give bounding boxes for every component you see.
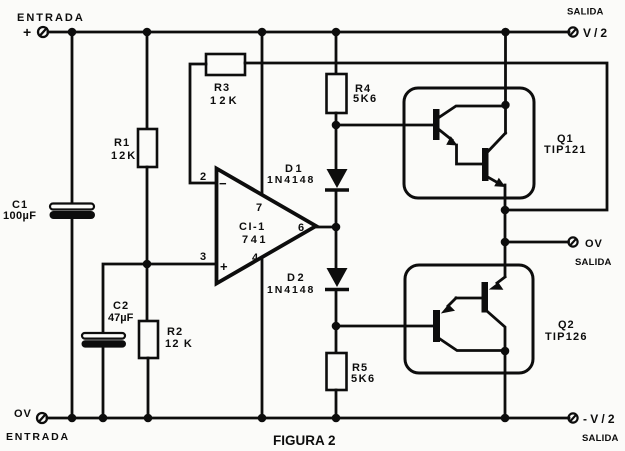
svg-text:ENTRADA: ENTRADA [17, 12, 85, 24]
svg-text:FIGURA 2: FIGURA 2 [273, 433, 336, 448]
svg-text:TIP126: TIP126 [545, 331, 588, 343]
node feedback output junction [501, 206, 510, 215]
node bottom rail at pin4 column [258, 414, 267, 423]
node bottom rail at R2 column [144, 414, 153, 423]
wire Q1 emitter down to output node [504, 185, 507, 242]
svg-text:TIP121: TIP121 [544, 144, 587, 156]
wire Q1a collector [440, 106, 506, 117]
svg-text:47µF: 47µF [108, 312, 134, 324]
node top rail at R1 column [143, 28, 152, 37]
svg-text:Q2: Q2 [558, 319, 575, 331]
wire Q2a emitter with arrow [441, 298, 456, 314]
wire C1 column upper [71, 32, 74, 205]
svg-text:+: + [220, 259, 228, 274]
svg-text:-V/2: -V/2 [583, 412, 618, 426]
wire R2 column upper [146, 264, 149, 321]
wire top rail +V [48, 31, 569, 34]
wire Q2 base line [336, 325, 433, 328]
svg-text:3: 3 [200, 251, 206, 263]
wire op-amp output pin 6 [316, 226, 336, 229]
wire Q1b emitter with arrow [489, 178, 506, 188]
resistor R5 [327, 353, 347, 390]
svg-text:−: − [219, 176, 227, 191]
wire D1 to D2 [335, 191, 338, 268]
svg-text:R3: R3 [214, 82, 230, 94]
svg-text:SALIDA: SALIDA [575, 257, 612, 268]
wire R5 to bottom rail [335, 390, 338, 418]
capacitor C2 [82, 333, 127, 348]
transistor Q1 darlington box [404, 88, 534, 198]
node top rail at Q1 column [501, 28, 510, 37]
terminal OV input [37, 413, 47, 423]
node top rail at pin7 column [258, 28, 267, 37]
node Q1 collector junction [501, 101, 509, 109]
wire Q1a emitter to Q1b base [457, 145, 483, 164]
node OV output junction [501, 238, 510, 247]
svg-text:R1: R1 [114, 137, 130, 149]
wire Q2a collector [440, 339, 505, 351]
wire R3 left to op-amp pin 2 [190, 64, 216, 183]
wire Q2b emitter with arrow [489, 277, 505, 290]
terminal -V/2 [568, 413, 577, 422]
node Q1 base junction [332, 121, 341, 130]
diode D2 [325, 268, 349, 290]
svg-text:CI-1: CI-1 [239, 221, 266, 233]
terminal V/2 [568, 27, 577, 36]
transistor Q1b base bar [482, 148, 489, 181]
svg-text:6: 6 [298, 222, 304, 234]
svg-text:1N4148: 1N4148 [267, 284, 315, 296]
wire Q1a emitter with arrow [440, 130, 458, 146]
node bottom rail at C2 column [99, 414, 108, 423]
wire Q1 base line [336, 124, 433, 127]
wire C1 column lower [71, 219, 74, 418]
svg-text:ENTRADA: ENTRADA [6, 431, 70, 443]
resistor R2 [139, 321, 158, 358]
svg-text:7: 7 [256, 202, 262, 214]
wire bottom rail -V [47, 417, 569, 420]
svg-text:+: + [23, 24, 31, 40]
wire R1 column upper [146, 32, 149, 129]
svg-text:V/2: V/2 [583, 26, 610, 40]
terminal + input [38, 27, 48, 37]
wire op-amp V- pin 4 [261, 256, 264, 418]
capacitor C1 [50, 204, 96, 220]
svg-text:SALIDA: SALIDA [567, 7, 604, 18]
svg-text:741: 741 [242, 234, 268, 246]
svg-text:D2: D2 [287, 272, 306, 284]
diode D1 [325, 169, 349, 190]
op-amp U1 CI-1 741 [217, 169, 317, 284]
wire output column from top rail [504, 32, 507, 133]
node Q2 base junction [332, 322, 341, 331]
node R1 R2 pin3 junction [143, 260, 152, 269]
svg-text:1N4148: 1N4148 [267, 174, 315, 186]
wire Q2b base to Q2a emitter [456, 297, 482, 300]
wire noninverting line to op-amp pin 3 [103, 264, 216, 333]
node output of op-amp to diodes [332, 223, 341, 232]
svg-text:5K6: 5K6 [351, 373, 376, 385]
wire R3 right feedback to output node [245, 63, 607, 210]
wire Q1b collector [488, 133, 506, 152]
node bottom rail at C1 column [68, 414, 77, 423]
svg-text:OV: OV [585, 238, 603, 250]
transistor Q2a base bar [433, 310, 440, 342]
svg-text:SALIDA: SALIDA [582, 433, 619, 444]
wire R4 to D1 [335, 113, 338, 170]
svg-text:4: 4 [252, 252, 259, 264]
transistor Q1a base bar [433, 109, 440, 140]
svg-text:C2: C2 [113, 300, 129, 312]
wire R1 to noninverting node [146, 167, 149, 264]
svg-text:12 K: 12 K [165, 338, 193, 350]
node top rail at R4 column [332, 28, 341, 37]
transistor Q2 darlington box [405, 265, 533, 373]
wire Q2b collector [488, 312, 505, 351]
svg-text:12K: 12K [111, 150, 137, 162]
svg-text:12K: 12K [210, 95, 240, 107]
node Q2 collector junction [501, 347, 510, 356]
wire op-amp V+ pin 7 [261, 32, 264, 196]
wire output node into Q2 [504, 242, 507, 276]
svg-text:2: 2 [200, 171, 206, 183]
svg-text:R2: R2 [167, 326, 183, 338]
terminal OV output [568, 237, 577, 246]
wire D2 to R5 [335, 291, 338, 353]
svg-text:5K6: 5K6 [353, 93, 378, 105]
resistor R1 [138, 129, 157, 167]
wire OV output line [505, 241, 569, 244]
wire R4 column top [335, 32, 338, 74]
resistor R4 [327, 74, 347, 113]
resistor R3 [206, 54, 245, 75]
svg-text:100µF: 100µF [3, 210, 36, 222]
node bottom rail at Q2 column [501, 414, 510, 423]
node top rail at C1 column [68, 28, 77, 37]
transistor Q2b base bar [482, 282, 489, 313]
wire C2 to bottom rail [102, 347, 105, 418]
svg-text:OV: OV [14, 408, 32, 420]
wire Q2 collector to bottom rail [504, 351, 507, 418]
node bottom rail at R5 column [332, 414, 341, 423]
wire R2 to bottom rail [147, 358, 150, 418]
